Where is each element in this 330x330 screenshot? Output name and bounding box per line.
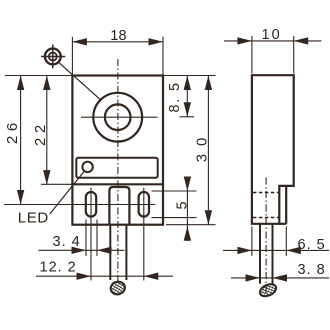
dimension 8.5: extension lines: [163, 76, 216, 117]
dimension 6.5: extension lines: [252, 227, 286, 257]
side view: body outline with step: [252, 75, 294, 224]
dimension 6.5: text: [298, 237, 326, 253]
sensing face target symbol: [41, 44, 65, 68]
svg-text:10: 10: [262, 27, 282, 43]
side view: vertical dash-dot centreline: [265, 178, 267, 299]
dimension 12.2: text: [40, 260, 77, 276]
side view: cable right edge: [272, 224, 274, 284]
dimension 8.5: dimension line and arrows: [184, 76, 191, 117]
dimension 26: text: [4, 118, 21, 144]
dimension 6.5: dimension line and arrows: [223, 247, 329, 254]
svg-text:18: 18: [110, 28, 127, 44]
side view: hidden slot top line: [253, 192, 279, 194]
dimension 12.2: dimension line and arrows: [36, 273, 173, 280]
svg-text:3. 8: 3. 8: [298, 262, 326, 278]
left view: left mounting slot: [86, 192, 96, 217]
side view: cable left edge: [259, 224, 261, 284]
dimension 18: dimension line and arrows: [72, 38, 163, 45]
left view: LED window: [76, 158, 157, 178]
svg-text:26: 26: [4, 118, 21, 144]
left view: right mounting slot: [139, 192, 149, 217]
side view: cable end cross-section: [258, 282, 278, 299]
dimension 18: text: [110, 28, 127, 44]
left view: left slot centreline: [90, 188, 92, 281]
dimension 18: extension lines: [72, 37, 163, 75]
dimension 22: bottom extension line: [41, 183, 72, 185]
left view: cable boss: [109, 187, 129, 225]
left view: circle horizontal centreline: [81, 116, 158, 118]
LED leader line: [50, 172, 84, 214]
dimension 10: text: [262, 27, 282, 43]
dimension 10: dimension line and arrows: [224, 37, 322, 44]
dimension 3.4: extension lines: [86, 220, 97, 257]
dimension 5: dimension line and arrows: [184, 177, 191, 242]
dimension 3.4: dimension line and arrows: [39, 247, 125, 254]
svg-text:5: 5: [175, 201, 191, 209]
left view: right slot centreline: [143, 188, 145, 281]
dimension 22: text: [32, 120, 49, 146]
left view: sensing face inner circle: [105, 104, 131, 130]
dimension 3.8: text: [298, 262, 326, 278]
left view: cable left edge: [109, 225, 111, 280]
side view: cable boss edge: [279, 187, 286, 224]
dimension 26/22: top extension line: [5, 75, 73, 77]
dimension 3.4: text: [53, 234, 81, 250]
dimension 3.8: dimension line and arrows: [231, 274, 329, 281]
svg-text:30: 30: [194, 130, 211, 163]
svg-text:12. 2: 12. 2: [40, 260, 77, 276]
bracket bottom extension line toward 30 dim: [166, 224, 216, 226]
svg-text:3. 4: 3. 4: [53, 234, 81, 250]
dimension 26: dimension line and arrows: [17, 76, 24, 205]
svg-text:22: 22: [32, 120, 49, 146]
side view: hidden slot bottom line: [253, 217, 279, 219]
svg-text:8. 5: 8. 5: [167, 81, 183, 112]
dimension 30: text: [194, 130, 211, 163]
left view: vertical dash-dot centreline: [117, 59, 119, 298]
left view: slot-centre horizontal line: [4, 204, 155, 206]
dimension 5: extension lines: [152, 191, 197, 218]
LED label: [18, 210, 49, 227]
svg-text:6. 5: 6. 5: [298, 237, 326, 253]
left view: cable end cross-section: [109, 280, 126, 296]
dimension 10: extension lines: [252, 36, 294, 74]
left view: body/flange parting line: [72, 183, 163, 185]
leader line from target symbol to sensing circle: [59, 63, 101, 100]
left view: sensor body outline: [72, 76, 163, 225]
left view: sensing face outer circle: [93, 93, 142, 142]
svg-text:LED: LED: [18, 210, 49, 227]
dimension 8.5: text: [167, 81, 183, 112]
left view: cable right edge: [125, 225, 127, 280]
dimension 5: text: [175, 201, 191, 209]
dimension 22: dimension line and arrows: [43, 76, 50, 185]
dimension 30: dimension line and arrows: [205, 76, 212, 225]
left view: LED lamp circle: [82, 162, 92, 172]
